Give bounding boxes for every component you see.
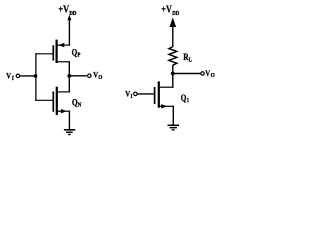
svg-text:I: I	[131, 93, 133, 100]
label VI (right)	[125, 89, 132, 100]
wire QP source lead (horizontal, y=45)	[57, 44, 70, 46]
label QP	[72, 48, 81, 59]
wire resistor bottom to output node	[172, 65, 174, 88]
resistor RL zigzag	[169, 47, 177, 66]
svg-text:V: V	[205, 68, 210, 78]
wire output horizontal to VO terminal	[69, 75, 87, 77]
transistor Q1 gate bar	[154, 87, 156, 104]
transistor Q1 channel bar	[158, 81, 160, 107]
VDD supply arrow (left)	[67, 15, 71, 21]
transistor QN gate bar	[52, 92, 54, 112]
ground symbol (left)	[64, 130, 75, 135]
svg-text:O: O	[98, 75, 103, 81]
svg-text:+V: +V	[161, 4, 172, 16]
svg-text:O: O	[211, 73, 216, 79]
label VO (right)	[205, 68, 215, 79]
transistor QN channel bar	[56, 87, 58, 115]
node +VDD label (left)	[58, 3, 76, 17]
node VO terminal circle (left)	[88, 74, 92, 78]
node VI junction dot (left)	[34, 74, 38, 78]
svg-text:+V: +V	[58, 3, 69, 15]
node output junction dot (left)	[67, 74, 71, 78]
transistor QN source arrow (points right, away from channel)	[61, 109, 67, 113]
svg-text:DD: DD	[172, 10, 179, 17]
label VO (left)	[93, 70, 103, 81]
node VI terminal circle (left)	[16, 74, 20, 78]
wire Q1 source down to ground	[172, 106, 174, 125]
wire QN source lead (horizontal, y=111.2) with right arrow	[57, 110, 70, 112]
transistor Q1 source arrow (points right, away from channel)	[161, 104, 167, 108]
wire Q1 gate lead	[137, 93, 154, 95]
wire QN source down to ground	[68, 111, 70, 130]
label VI (left)	[6, 71, 13, 82]
node VI terminal circle (right)	[134, 92, 138, 96]
svg-text:DD: DD	[69, 10, 76, 17]
node output junction dot (right)	[171, 72, 175, 76]
node VO terminal circle (right)	[201, 72, 205, 76]
wire QP gate lead	[35, 53, 52, 55]
node +VDD label (right)	[161, 4, 179, 18]
svg-text:V: V	[6, 71, 11, 81]
wire output vertical (QP drain to QN drain through output tap)	[68, 61, 70, 92]
wire Q1 source lead (horizontal, y=106.3) with right arrow	[159, 105, 174, 107]
label Q1	[181, 93, 189, 104]
svg-text:1: 1	[187, 97, 190, 104]
transistor QP source arrow (points left into channel)	[58, 43, 64, 47]
wire QN drain lead (horizontal, y=91.9)	[57, 91, 70, 93]
VDD supply arrow (right)	[170, 17, 177, 27]
wire output horizontal to VO terminal (right)	[173, 73, 201, 75]
wire VDD stem down to resistor	[172, 26, 174, 47]
wire VDD stem down to QP source	[68, 20, 70, 45]
svg-text:L: L	[189, 57, 192, 64]
label QN	[72, 97, 82, 108]
wire VI input bus vertical (gate of QP to gate of QN)	[35, 53, 37, 101]
transistor QP channel bar	[55, 40, 57, 63]
label RL	[183, 51, 192, 64]
wire QN gate lead	[35, 99, 52, 101]
wire QP drain lead (horizontal, y=61.8)	[57, 61, 70, 63]
svg-text:I: I	[12, 75, 14, 82]
svg-text:P: P	[77, 52, 80, 59]
wire VI horizontal	[20, 75, 36, 77]
wire Q1 drain lead (horizontal, y=87)	[159, 86, 173, 88]
transistor QP gate bar	[52, 45, 54, 60]
ground symbol (right)	[168, 125, 180, 130]
